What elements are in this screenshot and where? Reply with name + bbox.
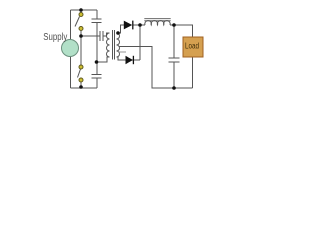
svg-text:Supply: Supply — [43, 32, 67, 43]
svg-text:Load: Load — [185, 41, 199, 51]
